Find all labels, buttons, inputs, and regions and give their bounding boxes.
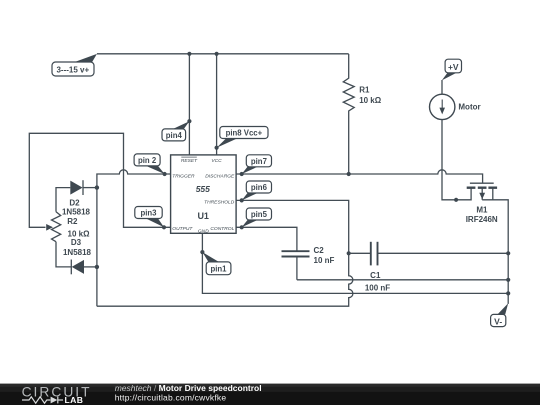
footer bar bbox=[0, 383, 540, 405]
wire C2 bottom rail bbox=[297, 279, 508, 281]
svg-text:Motor: Motor bbox=[458, 102, 480, 111]
label pin3 bbox=[135, 207, 164, 228]
wire CONTROL to C2 bbox=[236, 227, 297, 251]
junction dot THR node bbox=[347, 251, 351, 255]
svg-text:RESET: RESET bbox=[181, 158, 198, 164]
svg-text:pin1: pin1 bbox=[210, 264, 227, 273]
IC U1 555 box bbox=[171, 155, 237, 233]
label pin7 bbox=[242, 155, 272, 174]
svg-text:C1: C1 bbox=[370, 271, 381, 280]
svg-text:pin8 Vcc+: pin8 Vcc+ bbox=[226, 129, 263, 138]
potentiometer R2 bbox=[52, 212, 61, 242]
svg-text:IRF246N: IRF246N bbox=[466, 215, 498, 224]
svg-text:pin5: pin5 bbox=[251, 210, 268, 219]
svg-text:pin6: pin6 bbox=[251, 183, 268, 192]
junction dot top rail pin4 bbox=[187, 52, 191, 56]
label pin6 bbox=[242, 181, 272, 200]
pin dot GND bbox=[200, 250, 204, 254]
svg-text:OUTPUT: OUTPUT bbox=[172, 226, 193, 232]
svg-text:THRESHOLD: THRESHOLD bbox=[204, 199, 235, 205]
svg-text:3---15 v+: 3---15 v+ bbox=[56, 65, 89, 74]
label pin8 Vcc+ bbox=[217, 127, 268, 148]
svg-text:10 kΩ: 10 kΩ bbox=[359, 96, 382, 105]
pin dot THRESHOLD bbox=[240, 198, 244, 202]
svg-text:+V: +V bbox=[448, 62, 459, 72]
svg-text:555: 555 bbox=[196, 184, 210, 194]
label pin 2 bbox=[134, 154, 165, 174]
svg-text:LAB: LAB bbox=[65, 395, 84, 405]
pin dot TRIGGER bbox=[163, 172, 167, 176]
node 3---15 v+ flag bbox=[52, 54, 97, 76]
svg-text:D3: D3 bbox=[71, 238, 82, 247]
junction dot D3 right bbox=[95, 265, 99, 269]
wire +V to motor bbox=[441, 80, 443, 94]
svg-text:U1: U1 bbox=[197, 211, 209, 221]
diode D2 bbox=[56, 180, 97, 212]
svg-text:pin 2: pin 2 bbox=[138, 156, 157, 165]
junction dot R1 bottom bbox=[347, 172, 351, 176]
motor (current source symbol) bbox=[430, 94, 481, 119]
pin dot DISCHARGE bbox=[240, 172, 244, 176]
junction dots on V- rail bbox=[506, 251, 510, 255]
svg-text:M1: M1 bbox=[476, 205, 488, 214]
pin dot OUTPUT bbox=[162, 225, 166, 229]
svg-text:http://circuitlab.com/cwvkfke: http://circuitlab.com/cwvkfke bbox=[115, 392, 227, 402]
wire TRIGGER left (hop) down to bottom line bbox=[97, 170, 171, 306]
svg-text:VCC: VCC bbox=[211, 158, 222, 164]
svg-text:R2: R2 bbox=[67, 217, 78, 226]
svg-text:C2: C2 bbox=[314, 246, 325, 255]
svg-text:V-: V- bbox=[494, 316, 502, 326]
node V- flag bbox=[491, 303, 509, 326]
wire THR node down with hops to bottom line bbox=[97, 253, 353, 306]
svg-text:1N5818: 1N5818 bbox=[62, 208, 91, 217]
pin dot CONTROL bbox=[240, 225, 244, 229]
diode D3 bbox=[56, 242, 97, 275]
wiper arrow bbox=[46, 224, 53, 231]
wire pin4 branch bbox=[188, 54, 190, 155]
transistor M1 mosfet bbox=[466, 183, 509, 304]
svg-text:R1: R1 bbox=[359, 85, 370, 94]
capacitor C2 bbox=[282, 246, 335, 280]
wire pin8 branch bbox=[216, 54, 218, 155]
svg-text:pin3: pin3 bbox=[140, 209, 157, 218]
IC pin names bbox=[172, 157, 235, 234]
label pin5 bbox=[242, 208, 272, 227]
svg-text:meshtech / Motor Drive speedco: meshtech / Motor Drive speedcontrol bbox=[115, 383, 262, 393]
svg-text:pin4: pin4 bbox=[166, 131, 183, 140]
svg-text:1N5818: 1N5818 bbox=[63, 248, 92, 257]
resistor R1 bbox=[343, 54, 354, 174]
svg-text:GND: GND bbox=[198, 228, 209, 234]
pin dot RESET bbox=[187, 119, 191, 123]
svg-text:TRIGGER: TRIGGER bbox=[172, 174, 195, 180]
wire THRESHOLD down to node bbox=[236, 200, 349, 253]
wire motor down to mosfet source bbox=[442, 120, 471, 200]
node +V flag bbox=[442, 59, 462, 80]
svg-text:pin7: pin7 bbox=[251, 157, 267, 166]
junction dot top rail pin8 bbox=[215, 52, 219, 56]
svg-text:DISCHARGE: DISCHARGE bbox=[205, 174, 235, 180]
pin dot VCC bbox=[215, 146, 219, 150]
svg-text:CONTROL: CONTROL bbox=[210, 226, 234, 232]
wire GND down and right bbox=[202, 233, 508, 293]
wire top rail bbox=[97, 53, 349, 55]
wire DISCHARGE to gate (hop over motor wire) bbox=[236, 170, 483, 183]
label pin1 bbox=[202, 252, 231, 275]
svg-text:10 nF: 10 nF bbox=[314, 256, 335, 265]
svg-text:100 nF: 100 nF bbox=[365, 284, 390, 293]
label pin4 bbox=[162, 121, 189, 141]
wire OUTPUT feedback loop to pot wiper bbox=[29, 133, 170, 227]
junction dot D2 right bbox=[95, 185, 99, 189]
svg-text:D2: D2 bbox=[69, 198, 80, 207]
junction dot source pin bbox=[454, 198, 458, 202]
capacitor C1 bbox=[349, 242, 509, 293]
